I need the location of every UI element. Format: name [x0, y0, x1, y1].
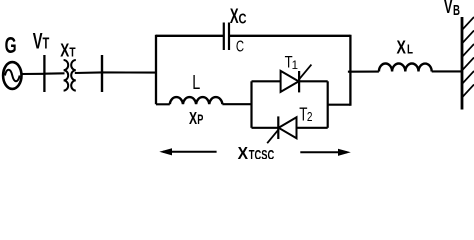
thyristor T1 [281, 65, 312, 93]
svg-text:X: X [230, 5, 239, 28]
svg-text:C: C [239, 11, 247, 27]
svg-text:TCSC: TCSC [249, 147, 275, 159]
transformer XT [64, 60, 76, 91]
inductor XL [379, 63, 432, 71]
svg-text:C: C [236, 39, 244, 56]
label XP [189, 108, 203, 128]
thyristor bottom wire left segment [252, 127, 279, 129]
top branch wire right of capacitor [230, 35, 351, 37]
label XTCSC [238, 143, 275, 163]
svg-text:V: V [444, 0, 453, 17]
wire XL to infinite bus [432, 70, 461, 72]
svg-text:T: T [43, 36, 50, 53]
wire thyristor block to node B [328, 104, 351, 106]
svg-text:1: 1 [292, 60, 298, 72]
wire generator to VT bus [22, 73, 45, 75]
TCSC right vertical riser [349, 35, 351, 106]
infinite bus VB [462, 17, 474, 110]
svg-text:G: G [5, 32, 17, 58]
TCSC left vertical riser [155, 35, 157, 105]
XTCSC left arrow [159, 148, 216, 155]
label XT [60, 40, 75, 61]
svg-text:P: P [197, 112, 203, 127]
thyristor block left vertical [250, 81, 252, 128]
label XC [230, 5, 247, 28]
label T2 [299, 104, 312, 124]
thyristor top wire left segment [252, 80, 282, 82]
generator G1 [3, 62, 21, 89]
thyristor block right vertical [327, 81, 329, 128]
capacitor XC plates [224, 23, 229, 51]
thyristor bottom wire right segment [297, 127, 328, 129]
XTCSC right arrow [300, 149, 351, 156]
label VB [444, 0, 460, 19]
bottom branch wire node A to inductor L [156, 103, 170, 105]
label T1 [285, 53, 298, 72]
svg-text:X: X [397, 37, 407, 58]
main wire node B to inductor XL [348, 71, 379, 73]
svg-text:2: 2 [307, 109, 313, 124]
thyristor T2 [267, 116, 296, 143]
svg-text:X: X [238, 143, 249, 159]
svg-text:X: X [189, 108, 197, 128]
svg-text:T: T [69, 45, 75, 60]
wire VT bus to transformer [44, 72, 64, 74]
svg-text:X: X [60, 40, 69, 61]
svg-text:L: L [407, 42, 413, 57]
svg-text:B: B [453, 3, 460, 19]
label XL [397, 37, 414, 58]
wire inductor L to thyristor block [222, 103, 251, 105]
svg-text:L: L [192, 72, 200, 94]
wire bus tick 2 to node A [102, 71, 157, 73]
thyristor top wire right segment [299, 80, 328, 82]
wire transformer to bus tick 2 [75, 71, 102, 74]
top branch wire left of capacitor [156, 35, 223, 37]
label VT [33, 28, 50, 53]
bus tick VT [43, 55, 45, 92]
bus tick 2 [101, 55, 103, 92]
inductor L (XP) [170, 97, 223, 104]
svg-text:V: V [33, 28, 43, 53]
